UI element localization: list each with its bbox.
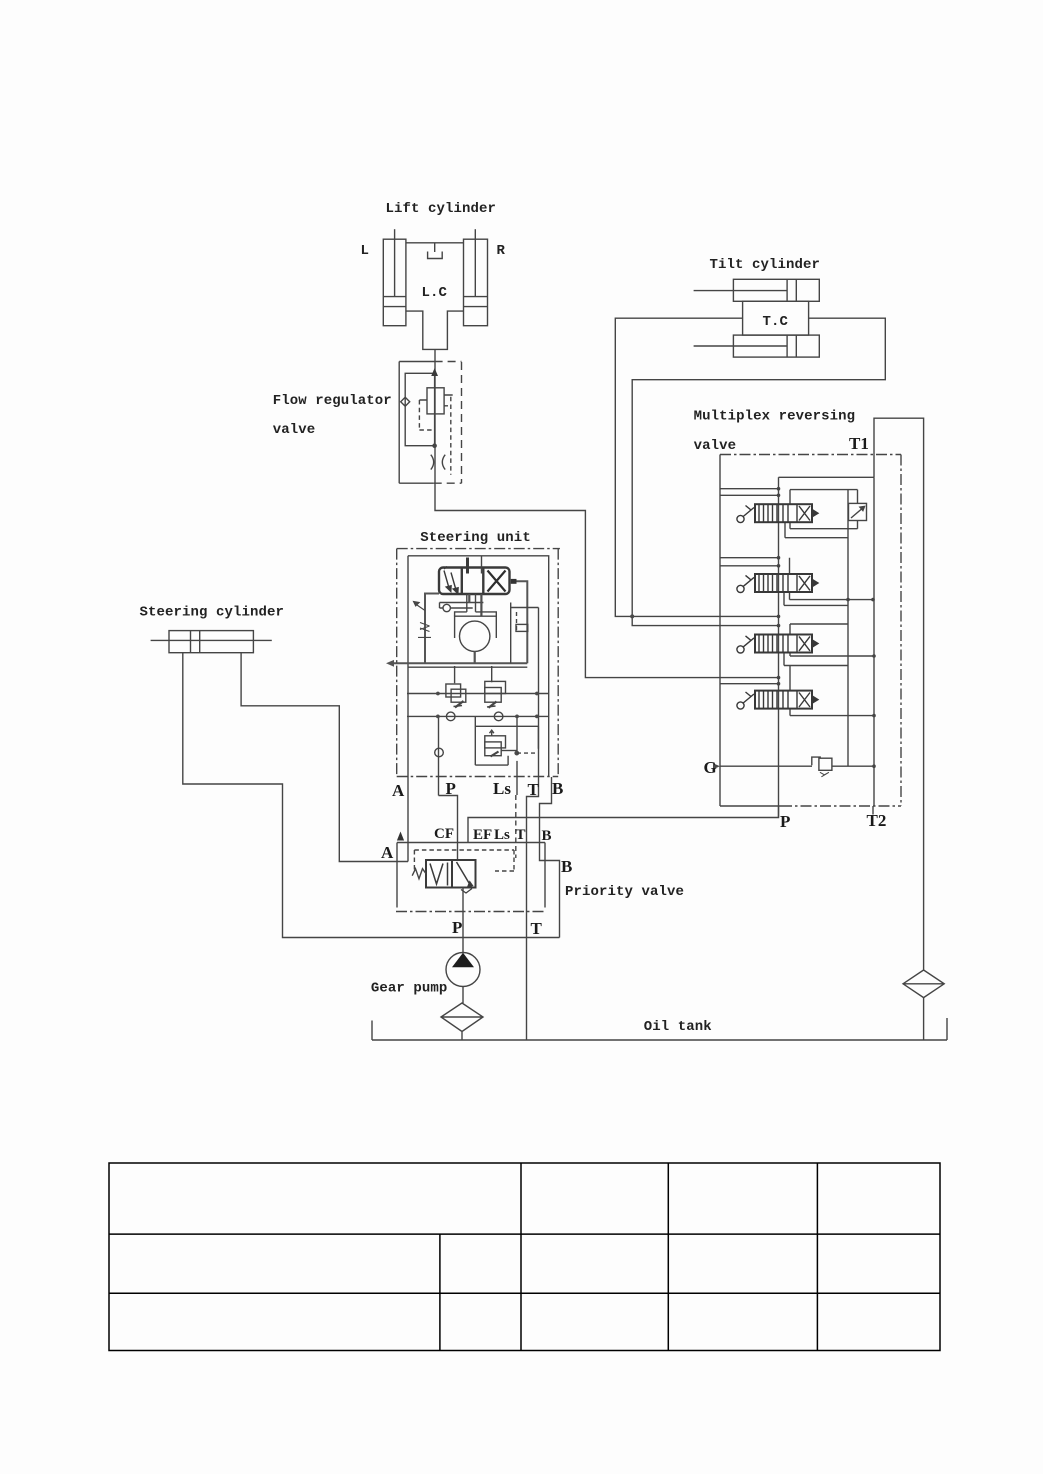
- Ls pilot orifice box: [516, 624, 528, 631]
- spring on left feedback: [418, 623, 431, 638]
- wire steering feedback arrow line: [389, 662, 527, 664]
- pilot valve on G line: [812, 757, 832, 777]
- node flow regulator loop bottom: [432, 443, 437, 448]
- wire multiplex T return line: [873, 477, 875, 806]
- node shuttle ball right: [494, 712, 503, 721]
- svg-text:A: A: [392, 781, 405, 800]
- svg-text:CF: CF: [434, 826, 454, 842]
- check valve CV1: [446, 684, 466, 708]
- lift cylinder L.C right barrel R: [464, 229, 488, 326]
- svg-text:B: B: [542, 828, 552, 844]
- svg-text:Ls: Ls: [493, 779, 511, 798]
- wire valve1 left stubs: [720, 489, 779, 496]
- svg-text:T: T: [531, 919, 543, 938]
- wire tilt cylinder left to multiplex valve3 upper: [615, 318, 778, 616]
- wire under valve: [440, 602, 484, 604]
- wire steering unit B port to priority valve B: [540, 777, 560, 938]
- svg-text:P: P: [452, 918, 462, 937]
- gerotor bracket: [455, 616, 497, 638]
- filter suction diamond: [441, 1003, 483, 1040]
- node steering valve right port: [511, 579, 517, 584]
- flow regulator valve outline: [399, 362, 461, 484]
- port labels: [381, 434, 886, 938]
- wire steering cylinder right port to priority valve A: [241, 653, 408, 862]
- wire check valve row: [407, 666, 549, 694]
- svg-text:P: P: [446, 779, 456, 798]
- arrow flow regulator up: [431, 368, 438, 376]
- node junction T check row: [535, 692, 539, 696]
- node tilt lines crossing: [630, 614, 634, 618]
- svg-text:B: B: [552, 779, 563, 798]
- tilt cylinder T.C bottom barrel: [694, 335, 820, 357]
- wire lift cylinder bottom funnel: [406, 311, 464, 349]
- steering unit inner box: [408, 556, 549, 777]
- wire T1 to return line and right filter: [874, 418, 924, 970]
- wire valve4 left stub: [720, 683, 779, 685]
- svg-text:EF: EF: [473, 827, 492, 843]
- svg-text:Steering cylinder: Steering cylinder: [140, 605, 285, 621]
- priority valve dashed pilot box: [414, 850, 514, 871]
- wire lift cylinder to flow regulator and steering line: [435, 349, 779, 677]
- node junctions on T line: [846, 598, 876, 768]
- svg-text:R: R: [497, 243, 506, 259]
- arrow A into priority valve: [397, 832, 404, 841]
- wire valve3 right ladder: [790, 624, 848, 656]
- svg-text:B: B: [561, 857, 572, 876]
- lift cylinder breather port: [428, 244, 443, 259]
- wire feedback lower line: [408, 666, 527, 668]
- wire multiplex P supply line: [778, 477, 780, 817]
- svg-text:valve: valve: [694, 438, 737, 454]
- flow regulator compensator element: [419, 388, 452, 414]
- node shuttle ball left: [446, 712, 455, 721]
- svg-text:T2: T2: [867, 811, 887, 830]
- wire T2 stub: [872, 806, 874, 815]
- steering valve left section arrows: [444, 567, 458, 594]
- wire T gallery top: [779, 476, 875, 478]
- svg-text:Ls: Ls: [494, 827, 510, 843]
- svg-text:Multiplex reversing: Multiplex reversing: [694, 409, 856, 425]
- wire steering unit T port to tank: [527, 716, 539, 1039]
- wire steering unit A port line: [407, 556, 409, 862]
- node junction P check row: [436, 692, 440, 696]
- svg-text:valve: valve: [273, 422, 316, 438]
- wire right filter to oil tank: [923, 998, 925, 1040]
- wire steering unit P to priority valve CF: [439, 716, 458, 860]
- svg-text:L: L: [361, 243, 370, 259]
- table: [109, 1163, 940, 1351]
- svg-text:T: T: [516, 827, 526, 843]
- wire steering valve left feedback: [425, 594, 439, 664]
- svg-text:P: P: [780, 812, 790, 831]
- relief valve RV2 multiplex: [849, 503, 867, 520]
- wire cascade line: [847, 490, 849, 767]
- multiplex directional valve V4: [737, 691, 818, 710]
- svg-text:Tilt cylinder: Tilt cylinder: [710, 257, 821, 273]
- wire priority valve EF to multiplex P: [468, 806, 779, 843]
- wire tilt cylinder right loop to multiplex valve3 lower: [632, 318, 885, 625]
- svg-text:L.C: L.C: [422, 285, 448, 301]
- svg-text:A: A: [381, 843, 394, 862]
- wire valve2 left stubs: [720, 558, 779, 566]
- steering unit control valve U1: [439, 558, 510, 595]
- wire steering cylinder left port to tank gallery: [183, 653, 560, 938]
- steering cylinder barrel: [151, 631, 272, 653]
- svg-text:Oil tank: Oil tank: [644, 1019, 712, 1035]
- lift cylinder L.C left barrel L: [383, 229, 406, 326]
- steering valve pilot stub: [481, 556, 483, 574]
- wire valve34 shared line: [784, 653, 874, 716]
- svg-text:Priority valve: Priority valve: [565, 884, 684, 900]
- svg-text:G: G: [704, 758, 717, 777]
- svg-text:Flow regulator: Flow regulator: [273, 393, 392, 409]
- wire G pilot line: [720, 765, 874, 767]
- node junction T row: [535, 715, 539, 719]
- wire oil tank line: [372, 1018, 947, 1040]
- svg-text:Steering unit: Steering unit: [420, 530, 531, 546]
- wire valve2 right ladder: [784, 558, 873, 606]
- wire shuttle row: [407, 715, 549, 717]
- gear pump P1: [446, 888, 480, 1004]
- flow regulator inner loop: [405, 373, 434, 445]
- svg-text:Gear pump: Gear pump: [371, 981, 448, 997]
- node check ball circle: [443, 604, 450, 611]
- tilt cylinder T.C center block: [743, 301, 809, 335]
- tilt cylinder T.C top barrel: [694, 279, 820, 301]
- svg-text:Lift cylinder: Lift cylinder: [386, 201, 497, 217]
- wire right sense column: [511, 603, 539, 717]
- flow regulator pilot dashes: [419, 397, 450, 475]
- wire valve1 right ladder: [785, 490, 858, 538]
- multiplex directional valve V1: [737, 504, 818, 522]
- filter right diamond: [903, 970, 944, 998]
- wire steering valve right feedback: [517, 581, 528, 663]
- svg-text:T1: T1: [849, 434, 869, 453]
- wire lift cylinder top link: [406, 242, 464, 244]
- wire valve to gerotor: [455, 594, 497, 616]
- multiplex directional valve V2: [737, 574, 818, 593]
- arrow G: [713, 763, 720, 769]
- multiplex reversing valve box: [720, 455, 901, 807]
- priority valve spool arrows: [430, 862, 472, 893]
- wire gerotor shaft: [474, 652, 476, 664]
- svg-text:T.C: T.C: [763, 314, 789, 330]
- wire Ls pilot line steering unit to priority valve: [516, 717, 518, 753]
- node junction P row: [436, 715, 440, 719]
- svg-text:T: T: [528, 780, 540, 799]
- node pilot ball: [435, 748, 444, 757]
- component name labels: [140, 201, 856, 1035]
- steering unit outer dash-dot box: [397, 549, 560, 777]
- relief valve RV1 steering unit: [475, 716, 538, 765]
- priority valve spring: [412, 869, 426, 879]
- gerotor rotor circle: [460, 621, 490, 651]
- arrow mark left feedback top: [414, 602, 426, 611]
- priority valve box: [396, 843, 545, 912]
- Ls pilot dashes inside unit: [516, 612, 518, 631]
- node junction Ls row: [515, 715, 519, 719]
- flow regulator pilot diamond: [401, 397, 410, 406]
- node junctions on P line: [777, 487, 781, 686]
- multiplex directional valve V3: [737, 635, 818, 654]
- flow regulator orifice: [431, 455, 445, 470]
- arrow feedback left: [386, 660, 394, 667]
- check valve CV2: [485, 681, 506, 707]
- steering valve right section X: [488, 571, 506, 592]
- priority valve spool PV1: [426, 860, 476, 888]
